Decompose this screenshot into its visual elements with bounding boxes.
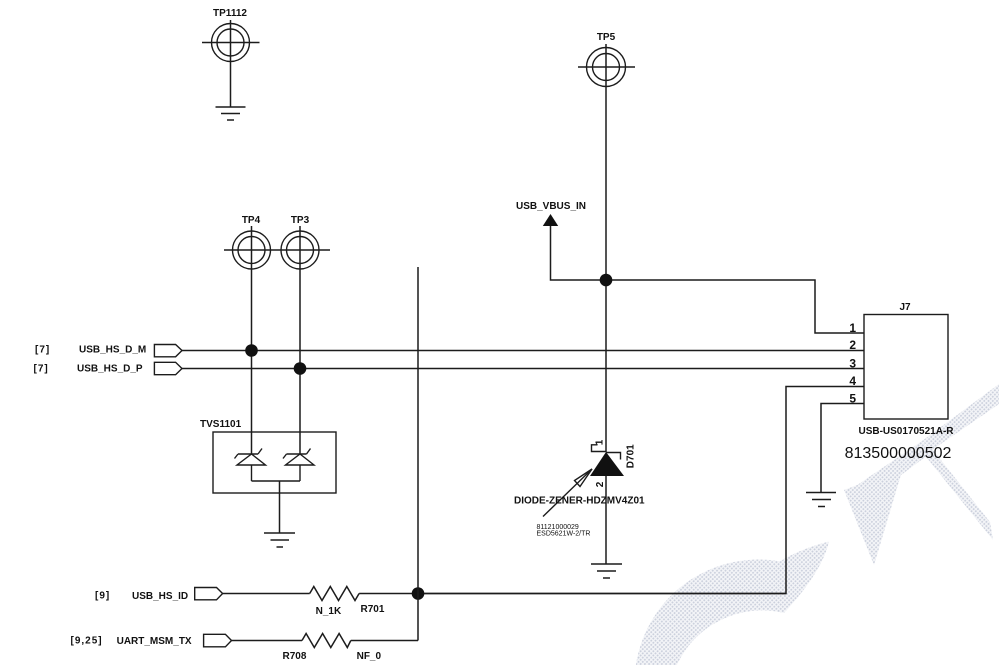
svg-text:[9]: [9] bbox=[95, 591, 110, 602]
svg-text:TP4: TP4 bbox=[242, 215, 261, 226]
svg-text:2: 2 bbox=[595, 481, 606, 487]
svg-text:USB_HS_D_P: USB_HS_D_P bbox=[77, 364, 143, 375]
svg-text:813500000502: 813500000502 bbox=[845, 445, 952, 462]
svg-text:[7]: [7] bbox=[34, 364, 49, 375]
svg-text:TP3: TP3 bbox=[291, 215, 310, 226]
svg-text:3: 3 bbox=[849, 357, 856, 371]
svg-text:R701: R701 bbox=[361, 604, 385, 615]
svg-text:USB_HS_ID: USB_HS_ID bbox=[132, 591, 188, 602]
svg-text:R708: R708 bbox=[283, 651, 307, 662]
svg-text:UART_MSM_TX: UART_MSM_TX bbox=[117, 636, 192, 647]
svg-text:USB-US0170521A-R: USB-US0170521A-R bbox=[858, 426, 954, 437]
svg-text:DIODE-ZENER-HDZMV4Z01: DIODE-ZENER-HDZMV4Z01 bbox=[514, 496, 645, 507]
svg-text:1: 1 bbox=[849, 321, 856, 335]
svg-text:USB_VBUS_IN: USB_VBUS_IN bbox=[516, 201, 586, 212]
svg-text:TP1112: TP1112 bbox=[213, 8, 247, 19]
svg-text:NF_0: NF_0 bbox=[357, 651, 382, 662]
svg-text:TVS1101: TVS1101 bbox=[200, 419, 242, 430]
svg-text:J7: J7 bbox=[899, 302, 911, 313]
svg-text:TP5: TP5 bbox=[597, 32, 616, 43]
svg-text:[7]: [7] bbox=[35, 345, 50, 356]
svg-text:1: 1 bbox=[595, 439, 606, 445]
svg-text:2: 2 bbox=[849, 338, 856, 352]
svg-text:ESD5621W-2/TR: ESD5621W-2/TR bbox=[537, 531, 591, 538]
svg-text:D701: D701 bbox=[626, 444, 637, 468]
svg-text:USB_HS_D_M: USB_HS_D_M bbox=[79, 345, 146, 356]
svg-text:N_1K: N_1K bbox=[316, 606, 342, 617]
svg-text:[9,25]: [9,25] bbox=[71, 636, 103, 647]
